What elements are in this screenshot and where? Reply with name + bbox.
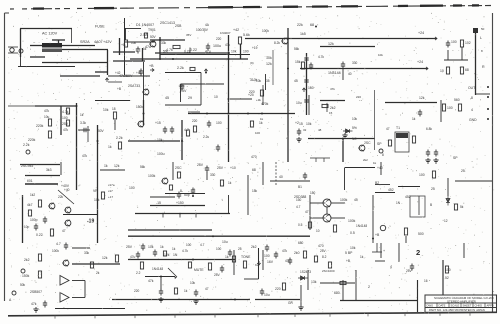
diode D902: [124, 40, 127, 47]
D4 junction area: [376, 243, 378, 252]
wire input box left: [20, 29, 22, 58]
terminal dots right edge: [487, 86, 489, 88]
capacitor C910: [446, 41, 450, 48]
wire bottom return: [60, 75, 100, 77]
bias box outline: [165, 72, 201, 74]
bus v x443: [442, 260, 444, 295]
row of parts y54: [160, 54, 250, 56]
svg-text:680: 680: [298, 241, 304, 245]
svg-text:47u: 47u: [205, 50, 211, 54]
capacitor C903: [206, 44, 210, 51]
svg-text:220: 220: [275, 287, 281, 291]
wire v x374: [374, 90, 376, 150]
wire secondary bottom rail: [42, 62, 108, 64]
svg-text:470k: 470k: [261, 102, 269, 106]
svg-text:+B: +B: [149, 64, 154, 68]
svg-text:50k: 50k: [20, 283, 26, 287]
wire v x448: [447, 178, 449, 196]
svg-text:33k: 33k: [161, 41, 167, 45]
svg-text:150k: 150k: [22, 274, 30, 278]
svg-text:SR2A: SR2A: [80, 40, 90, 44]
svg-text:601: 601: [27, 179, 33, 183]
power transistor Q208: [323, 214, 331, 222]
resistor R302: [115, 255, 118, 262]
svg-text:12k: 12k: [102, 256, 108, 260]
svg-text:47k: 47k: [225, 43, 231, 47]
wire y76 psu: [108, 75, 150, 77]
op-amp A2: [60, 293, 69, 303]
transistor Q203: [65, 220, 71, 226]
svg-text:45: 45: [165, 96, 169, 100]
resistor R102: [48, 131, 51, 138]
bus vertical x475: [475, 30, 477, 95]
connector J3: [12, 291, 16, 295]
wire y82: [108, 81, 122, 83]
svg-text:25V: 25V: [217, 166, 224, 170]
svg-text:68: 68: [310, 23, 314, 27]
transistor Q901: [150, 41, 156, 47]
supply arrow +B: [150, 68, 154, 71]
wire left stub y106: [8, 105, 35, 107]
svg-text:56k: 56k: [140, 165, 146, 169]
svg-text:SHEET: SHEET: [463, 304, 472, 308]
svg-text:25: 25: [431, 187, 435, 191]
svg-text:10k: 10k: [148, 245, 154, 249]
resistor R113: [322, 104, 328, 107]
cap C304: [153, 250, 157, 257]
ground D2: [158, 297, 163, 302]
svg-text:AC 120V: AC 120V: [42, 32, 58, 36]
bus vertical x343: [342, 139, 344, 163]
title block rule 1: [425, 302, 497, 304]
svg-text:220k: 220k: [28, 138, 36, 142]
resistor R123: [412, 136, 415, 143]
svg-text:0.22: 0.22: [190, 48, 197, 52]
svg-text:500: 500: [418, 232, 424, 236]
svg-text:47: 47: [386, 127, 390, 131]
svg-text:68: 68: [465, 68, 469, 72]
svg-text:47: 47: [205, 287, 209, 291]
capacitor C905: [180, 84, 184, 91]
svg-text:+42: +42: [115, 71, 121, 75]
bus vertical x228: [228, 35, 230, 162]
diode D205: [446, 196, 450, 206]
capacitor C907: [309, 63, 313, 70]
resistor R321: [340, 281, 346, 284]
svg-text:0.22: 0.22: [36, 233, 43, 237]
svg-text:+150: +150: [176, 201, 184, 205]
wire x475 to border: [476, 93, 491, 95]
transformer T901 secondary: [42, 49, 62, 53]
svg-text:100: 100: [216, 121, 222, 125]
svg-text:8: 8: [180, 189, 182, 193]
wire R103 stub: [114, 120, 116, 130]
svg-text:25V: 25V: [126, 245, 133, 249]
wire secondary lead: [62, 49, 108, 51]
svg-text:35: 35: [266, 79, 270, 83]
wire input box top: [20, 28, 72, 30]
node dots rail: [159, 58, 161, 60]
svg-text:OUT: OUT: [468, 86, 475, 90]
supply arrow +B node: [204, 69, 207, 73]
svg-text:50V: 50V: [98, 129, 105, 133]
svg-text:6.8k: 6.8k: [426, 127, 432, 131]
bus vertical x182: [181, 120, 183, 160]
svg-text:22k: 22k: [58, 195, 64, 199]
capacitor C901: [136, 47, 140, 54]
svg-text:1S2473: 1S2473: [300, 270, 311, 274]
title block frame: [425, 295, 497, 312]
svg-text:100: 100: [447, 106, 453, 110]
bus vertical x61: [60, 106, 62, 135]
connector +B2: [380, 225, 385, 230]
svg-text:48: 48: [318, 128, 322, 132]
svg-text:SCALE: SCALE: [451, 304, 460, 308]
svg-text:12k: 12k: [114, 164, 120, 168]
svg-text:+40: +40: [377, 166, 383, 170]
svg-text:1k: 1k: [108, 145, 112, 149]
svg-text:+41: +41: [136, 71, 142, 75]
svg-text:220: 220: [192, 119, 198, 123]
svg-text:2SA733: 2SA733: [128, 84, 140, 88]
svg-text:NC: NC: [352, 137, 357, 141]
svg-text:APPD: APPD: [487, 304, 494, 308]
svg-text:1k5: 1k5: [300, 32, 306, 36]
svg-text:PART NO. 123-4567-89 PRINTED: PART NO. 123-4567-89 PRINTED IN JAPAN: [429, 308, 485, 312]
svg-text:2k: 2k: [96, 271, 100, 275]
transistor Q103: [138, 121, 144, 127]
svg-text:10k: 10k: [256, 79, 262, 83]
capacitor C208: [303, 173, 307, 180]
wire input box bottom: [18, 66, 75, 68]
svg-text:100k: 100k: [148, 174, 156, 178]
svg-text:1N4148: 1N4148: [328, 71, 341, 75]
title row cells: [436, 303, 438, 308]
supply arrow +24b: [302, 88, 305, 92]
svg-text:220: 220: [356, 95, 361, 99]
wire y130: [78, 129, 90, 131]
bus vertical x373: [372, 195, 374, 243]
wire y184 strong: [25, 183, 58, 185]
svg-text:+B: +B: [375, 233, 380, 237]
svg-text:2k2: 2k2: [330, 106, 336, 110]
svg-text:4k7: 4k7: [27, 203, 33, 207]
wire y164: [20, 164, 60, 166]
wire v x276 dashed: [275, 162, 277, 185]
wire A1 out: [72, 280, 85, 282]
rail y264: [72, 263, 120, 265]
border frame left: [4, 13, 6, 301]
wire y192: [375, 192, 395, 194]
wire to fuse: [58, 40, 60, 44]
bus v x228 lower seg: [228, 195, 230, 214]
wire y184 c4: [375, 184, 390, 186]
resistor R215: [333, 225, 336, 232]
svg-text:12k: 12k: [419, 96, 425, 100]
svg-text:25: 25: [461, 169, 465, 173]
svg-text:100: 100: [419, 173, 425, 177]
resistor R904: [238, 37, 241, 44]
svg-text:B: B: [430, 203, 432, 207]
svg-text:(9): (9): [250, 61, 254, 65]
ground D3: [298, 305, 303, 310]
svg-text:220: 220: [249, 90, 255, 94]
resistor R108: [186, 130, 189, 136]
arrow up transformer: [105, 78, 108, 82]
diode D103: [343, 129, 353, 133]
resistor R903: [173, 45, 180, 48]
resistor R320: [303, 251, 306, 258]
svg-text:DWG: DWG: [427, 304, 434, 308]
wire x441 drop: [440, 100, 442, 122]
extra marks B1 cluster: [66, 108, 69, 114]
svg-text:B1: B1: [298, 185, 302, 189]
diode D301: [298, 276, 308, 280]
svg-text:100: 100: [216, 247, 222, 251]
svg-text:40: 40: [348, 72, 352, 76]
wire y42 psu: [124, 41, 155, 43]
svg-text:47k: 47k: [63, 128, 69, 132]
resistor R303: [38, 271, 41, 278]
resistor R917: [460, 67, 463, 74]
wire AC lead right: [62, 45, 95, 47]
svg-text:2SC1413: 2SC1413: [160, 21, 175, 25]
title block rule 2: [425, 307, 497, 309]
rail y46: [320, 46, 375, 48]
wire y193: [165, 193, 205, 195]
rail y68: [300, 68, 428, 70]
resistor R104: [118, 142, 121, 149]
svg-text:100: 100: [445, 268, 451, 272]
wire rail y59: [130, 58, 248, 60]
svg-text:+10: +10: [230, 166, 236, 170]
svg-text:1k: 1k: [184, 289, 188, 293]
svg-text:100k: 100k: [348, 219, 356, 223]
bus vertical x248: [247, 175, 249, 215]
svg-text:1N4007: 1N4007: [220, 31, 231, 35]
wire v x161: [160, 277, 162, 291]
svg-text:5.6k: 5.6k: [243, 33, 250, 37]
wire +B rail: [113, 51, 135, 53]
svg-text:18: 18: [112, 107, 116, 111]
resistor R201: [38, 200, 41, 207]
svg-text:10k: 10k: [306, 122, 312, 126]
frame box top right: [344, 168, 346, 190]
transformer T2 core: [396, 133, 408, 138]
wire AC lead left: [30, 45, 42, 47]
svg-text:12k: 12k: [266, 62, 272, 66]
cap x343: [341, 62, 345, 69]
svg-text:100/35V: 100/35V: [196, 28, 209, 32]
wire y186 c4: [398, 186, 420, 188]
svg-text:+24: +24: [418, 31, 424, 35]
resistor R222: [404, 228, 407, 235]
svg-text:35V: 35V: [186, 33, 191, 37]
rail y299 left: [112, 299, 250, 301]
svg-text:10u: 10u: [264, 293, 270, 297]
capacitor C302: [43, 301, 47, 308]
wire diag: [58, 190, 74, 204]
svg-text:102: 102: [465, 41, 471, 45]
rail y283: [320, 282, 355, 284]
capacitor C201: [43, 217, 47, 224]
svg-text:220: 220: [134, 289, 140, 293]
op-amp A1: [60, 276, 69, 286]
capacitor C103: [163, 127, 167, 134]
resistor R311: [208, 263, 211, 270]
svg-text:150k: 150k: [136, 105, 143, 109]
svg-text:+B: +B: [346, 259, 350, 263]
svg-text:2SC: 2SC: [175, 166, 182, 170]
wire y170: [100, 169, 125, 171]
svg-text:10k: 10k: [231, 50, 237, 54]
junction dots extra: [76, 105, 78, 107]
svg-text:32: 32: [303, 128, 307, 132]
resistor R301: [38, 254, 41, 261]
vertical x417 strong: [417, 280, 419, 312]
wire fuse branch: [125, 28, 127, 40]
svg-text:10u: 10u: [44, 115, 50, 119]
wire y308: [55, 308, 125, 310]
wire v x464: [463, 243, 465, 258]
wire cap drop: [142, 48, 144, 61]
svg-text:47u: 47u: [130, 255, 136, 259]
svg-text:47k: 47k: [148, 279, 154, 283]
svg-text:47k: 47k: [82, 154, 88, 158]
wire x309 drop: [308, 95, 310, 115]
resistor R915: [460, 40, 463, 47]
power transistor Q207: [323, 199, 331, 207]
extra D2 cluster: [136, 252, 140, 259]
rail y113: [188, 113, 295, 115]
svg-text:15k: 15k: [295, 60, 301, 64]
capacitor C110: [426, 150, 430, 157]
svg-text:100u: 100u: [213, 44, 221, 48]
rail y213: [135, 213, 230, 215]
svg-text:1k: 1k: [160, 245, 164, 249]
svg-text:+B: +B: [117, 87, 121, 91]
node dot: [315, 26, 317, 28]
cap C303: [141, 244, 145, 251]
wire base rail: [150, 39, 185, 41]
capacitor C104: [170, 127, 174, 134]
resistor R916: [446, 67, 449, 74]
svg-text:10p: 10p: [24, 225, 30, 229]
svg-text:2k2: 2k2: [24, 258, 30, 262]
svg-text:100: 100: [255, 131, 260, 135]
svg-text:x17: x17: [108, 189, 113, 193]
svg-text:1k: 1k: [260, 117, 264, 121]
wire v x301: [300, 285, 302, 305]
cap on bus x306: [304, 56, 308, 63]
vertical x143 psu: [143, 62, 145, 100]
resistor R911: [301, 62, 304, 69]
capacitor C111: [434, 150, 438, 157]
svg-text:100k: 100k: [340, 198, 348, 202]
svg-text:8: 8: [382, 153, 384, 157]
rail y300 right: [340, 300, 418, 302]
resistor R310: [140, 262, 143, 269]
svg-text:47k: 47k: [282, 249, 288, 253]
wire y214 c1: [63, 214, 97, 216]
transistor Q201: [49, 203, 55, 209]
svg-text:50: 50: [481, 27, 485, 31]
svg-text:330: 330: [210, 173, 216, 177]
svg-text:1k: 1k: [259, 121, 263, 125]
wire y112 short: [188, 111, 200, 113]
svg-text:16V: 16V: [267, 260, 274, 264]
svg-text:1k: 1k: [225, 255, 229, 259]
wire Q102 drop: [143, 100, 145, 125]
plug P1: [19, 49, 23, 53]
pot VR201: [101, 192, 104, 199]
svg-text:8.2k: 8.2k: [274, 41, 280, 45]
wire y181 right: [455, 180, 492, 182]
svg-text:25V: 25V: [180, 89, 187, 93]
wire y181: [270, 180, 310, 182]
svg-text:25V: 25V: [62, 122, 69, 126]
wire v x273: [272, 50, 274, 85]
svg-text:3.3k: 3.3k: [80, 121, 86, 125]
connector J2: [21, 269, 25, 273]
input jack J1: [26, 150, 30, 154]
svg-text:29: 29: [188, 96, 192, 100]
svg-text:330: 330: [352, 61, 358, 65]
svg-text:45: 45: [354, 198, 358, 202]
svg-text:10u: 10u: [296, 101, 302, 105]
svg-text:5%: 5%: [352, 126, 357, 130]
step wire v190: [189, 48, 191, 54]
svg-text:100: 100: [186, 243, 192, 247]
cap c2 top: [205, 166, 209, 173]
svg-text:STEREO AMPLIFIER: STEREO AMPLIFIER: [447, 300, 477, 304]
svg-text:25: 25: [238, 247, 242, 251]
rail y38: [245, 38, 437, 40]
transistor Q301: [63, 260, 69, 266]
relay box: [410, 196, 425, 217]
capacitor C204: [177, 192, 181, 199]
svg-text:4: 4: [471, 108, 473, 112]
wire lower rail A1: [113, 60, 145, 62]
wire y248: [72, 247, 90, 249]
svg-text:x2: x2: [255, 263, 259, 267]
wire v x381 d4: [380, 243, 382, 258]
wire v x399: [398, 243, 400, 262]
wire y100: [320, 100, 345, 102]
svg-text:VR: VR: [93, 189, 98, 193]
svg-text:T1: T1: [396, 126, 400, 130]
capacitor C108: [297, 129, 301, 136]
svg-text:15: 15: [329, 111, 333, 115]
wire y100 left: [95, 100, 130, 102]
rail y230: [128, 229, 212, 231]
capacitor C105: [207, 121, 211, 128]
svg-text:5%: 5%: [163, 50, 168, 54]
node +B: [119, 38, 121, 55]
svg-text:220k: 220k: [36, 124, 44, 128]
svg-text:47k: 47k: [31, 302, 37, 306]
cap C305: [159, 289, 163, 296]
long vertical x124: [124, 18, 126, 75]
svg-text:16: 16: [424, 279, 428, 283]
wire v x61 c1: [60, 162, 62, 175]
resistor R103: [113, 112, 116, 119]
border frame right: [492, 13, 494, 312]
svg-text:47: 47: [305, 210, 309, 214]
svg-text:GND: GND: [469, 118, 477, 122]
svg-text:25V: 25V: [320, 249, 327, 253]
svg-text:FUSE: FUSE: [95, 25, 105, 29]
